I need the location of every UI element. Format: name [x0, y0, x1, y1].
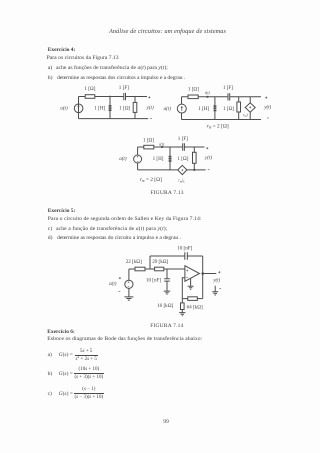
svg-text:1 [H]: 1 [H] [94, 105, 105, 111]
Ex5 item d text [57, 236, 181, 242]
resistor 1 ohm series circuit b [188, 95, 198, 99]
Ex5 item d marker [48, 236, 53, 242]
ground below source fig 7.14 [124, 297, 133, 300]
svg-text:16 [kΩ]: 16 [kΩ] [157, 303, 173, 309]
svg-text:29 [kΩ]: 29 [kΩ] [152, 259, 168, 265]
ground below 16 kohm fig 7.14 [179, 313, 185, 316]
wire: feedback bottom rail fig 7.14 [182, 298, 202, 300]
capacitor 1 F circuit a [124, 93, 126, 100]
Ex5 intro line [48, 217, 202, 223]
capacitor 1 F circuit c [183, 143, 185, 150]
formula c: G(s) = (s-1)/((s-3)(s+10)) [48, 392, 52, 398]
current source a(t) circuit a [74, 104, 83, 113]
svg-text:1 [H]: 1 [H] [153, 156, 164, 162]
FIGURA 7.13 caption [150, 191, 183, 197]
svg-text:a(t): a(t) [119, 155, 127, 162]
svg-text:a(t): a(t) [60, 104, 68, 111]
svg-text:1 [Ω]: 1 [Ω] [223, 106, 234, 112]
Ex4 item b text [57, 76, 185, 82]
svg-text:y(t): y(t) [146, 104, 154, 111]
svg-text:1 [Ω]: 1 [Ω] [119, 105, 130, 111]
Ex4 item b marker [48, 76, 53, 82]
formula a: G(s) = (5s+5)/(s^2+2s+5) [48, 353, 52, 359]
resistor 1 ohm shunt circuit c [193, 147, 197, 170]
resistor 1 ohm series circuit a [85, 95, 95, 99]
svg-text:i(t): i(t) [205, 90, 211, 95]
wire: bottom rail left circuit c [138, 169, 178, 171]
Exercicio 6 heading [47, 330, 75, 335]
inductor 1 H circuit c [169, 147, 172, 170]
Ex5 item c marker [48, 227, 52, 233]
node: output junction fig 7.14 [201, 272, 204, 275]
running header [109, 29, 226, 35]
svg-text:1 [Ω]: 1 [Ω] [143, 138, 154, 144]
svg-text:rm = 2 [Ω]: rm = 2 [Ω] [207, 123, 229, 129]
svg-text:64 [kΩ]: 64 [kΩ] [187, 305, 203, 311]
wire: left branch circuit a [78, 97, 80, 119]
svg-text:10 [nF]: 10 [nF] [177, 245, 192, 251]
resistor 1 ohm series circuit c [144, 145, 154, 149]
svg-text:22 [kΩ]: 22 [kΩ] [126, 259, 142, 265]
capacitor 10 nF shunt fig 7.14 [164, 269, 170, 291]
resistor 1 ohm shunt circuit b [237, 97, 241, 120]
svg-text:1 [F]: 1 [F] [178, 136, 188, 142]
svg-text:rm = 2 [Ω]: rm = 2 [Ω] [140, 177, 162, 183]
ground at output reference fig 7.14 [212, 286, 218, 295]
wire: output lead fig 7.14 [203, 273, 217, 275]
svg-text:1 [F]: 1 [F] [223, 85, 233, 91]
wire: output feedback drop fig 7.14 [202, 274, 204, 299]
svg-text:a(t): a(t) [109, 280, 117, 287]
svg-text:10 [nF]: 10 [nF] [146, 278, 161, 284]
Ex6 intro line [47, 337, 202, 343]
formula b: G(s) = (10s+10)/((s+3)(s+10)) [48, 372, 53, 378]
svg-text:i(t): i(t) [159, 142, 165, 147]
ground below shunt capacitor fig 7.14 [164, 291, 170, 294]
Ex4 intro line [47, 56, 119, 62]
svg-text:1 [F]: 1 [F] [119, 85, 129, 91]
terminal plus output fig 7.14 [218, 271, 220, 273]
dependent source rm*i circuit b [245, 97, 255, 120]
Ex4 item a marker [48, 66, 52, 72]
svg-text:a(t): a(t) [164, 105, 172, 112]
wire: top rail circuit a [79, 96, 148, 98]
wire: top rail circuit b [182, 96, 262, 98]
terminal plus circuit b [265, 97, 267, 99]
Ex4 item a text [56, 66, 168, 72]
svg-text:1 [H]: 1 [H] [198, 106, 209, 112]
wire: bottom rail circuit a [79, 118, 149, 120]
wire: top feedback rail fig 7.14 [150, 256, 203, 274]
terminal minus of source fig 7.14 [118, 290, 120, 292]
svg-text:1 [Ω]: 1 [Ω] [84, 86, 95, 92]
resistor 64 kohm fig 7.14 [188, 297, 198, 301]
terminal minus circuit b [267, 117, 269, 119]
page number [163, 420, 169, 426]
terminal plus of source fig 7.14 [119, 277, 121, 279]
dependent source rm iL circuit c [178, 165, 187, 174]
resistor 22 kohm fig 7.14 [135, 267, 145, 271]
voltage source a(t) circuit c [134, 155, 142, 163]
Exercicio 4 heading [48, 48, 76, 53]
op-amp U1 fig 7.14 [185, 266, 200, 282]
Exercicio 5 heading [48, 209, 76, 214]
wire: feedback riser at node between resistors fig 7.14 [149, 256, 151, 269]
node i(t) circuit c [161, 146, 163, 148]
wire: bottom rail circuit b [182, 119, 262, 121]
svg-text:1 [Ω]: 1 [Ω] [177, 156, 188, 162]
capacitor 10 nF feedback fig 7.14 [185, 252, 188, 259]
resistor 1 ohm shunt circuit a [133, 97, 137, 119]
resistor 29 kohm fig 7.14 [155, 267, 164, 271]
wire: bottom rail right circuit c [187, 169, 206, 171]
svg-text:rmi: rmi [243, 113, 248, 118]
svg-text:y(t): y(t) [204, 154, 212, 161]
svg-text:y(t): y(t) [212, 277, 220, 284]
capacitor 1 F circuit b [228, 93, 230, 100]
inductor 1 H circuit a [109, 97, 112, 119]
node: junction bottom circuit c [193, 169, 195, 171]
ground below op-amp fig 7.14 [188, 278, 194, 289]
FIGURA 7.14 caption [150, 324, 183, 330]
voltage source a(t) fig 7.14 [125, 269, 133, 297]
wire: top rail circuit c [138, 146, 205, 148]
svg-text:rmiL: rmiL [178, 179, 185, 184]
svg-text:1 [Ω]: 1 [Ω] [188, 87, 199, 93]
wire: left branch circuit c [137, 147, 139, 170]
svg-text:y(t): y(t) [263, 104, 271, 111]
terminal minus circuit c [208, 168, 210, 170]
terminal minus circuit a [150, 118, 152, 120]
node i(t) circuit b [206, 96, 208, 98]
wire: inverting input lead fig 7.14 [182, 278, 185, 299]
wire: left branch circuit b [181, 97, 183, 120]
resistor 16 kohm fig 7.14 [181, 299, 185, 313]
terminal plus circuit c [206, 147, 208, 149]
terminal minus output reference fig 7.14 [219, 288, 221, 290]
wire: main input rail fig 7.14 [129, 268, 185, 270]
Ex5 item c text [56, 227, 167, 233]
terminal plus circuit a [148, 96, 150, 98]
node: junction inductor circuit a [109, 96, 111, 98]
circuits of Figura 7.13 and 7.14 drawn in one SVG [0, 0, 320, 340]
current source a(t) circuit b [177, 104, 186, 113]
inductor 1 H circuit b [214, 97, 217, 120]
